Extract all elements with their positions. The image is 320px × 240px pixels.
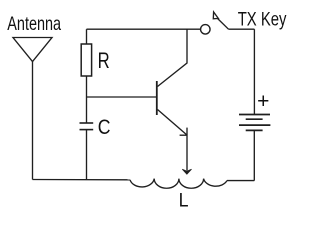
- svg-text:TX Key: TX Key: [238, 8, 287, 31]
- antenna symbol: [13, 38, 52, 62]
- wire bottom left: [33, 179, 131, 181]
- wire antenna lead down: [32, 62, 34, 180]
- wire base tap: [87, 96, 157, 98]
- switch lever tip triangle: [213, 12, 218, 19]
- capacitor C1: [80, 123, 94, 130]
- svg-text:L: L: [179, 189, 189, 211]
- wire top rail: [87, 28, 201, 30]
- svg-text:+: +: [257, 90, 269, 113]
- wire right rail down: [253, 29, 255, 114]
- wire battery to bottom: [253, 130, 255, 180]
- svg-text:C: C: [98, 115, 111, 139]
- inductor L1: [130, 179, 227, 189]
- switch lever: [218, 19, 229, 30]
- wire resistor to cap: [86, 76, 88, 123]
- resistor R1: [81, 44, 91, 76]
- battery B1: [239, 115, 270, 131]
- svg-text:R: R: [98, 49, 110, 74]
- wire switch to right rail: [229, 28, 255, 30]
- wire bottom right: [227, 180, 254, 182]
- svg-text:Antenna: Antenna: [7, 13, 61, 34]
- transistor Q1: [157, 29, 187, 135]
- wire left branch upper: [86, 29, 88, 44]
- wire cap to bottom: [86, 130, 88, 180]
- switch TX key terminal circle: [201, 25, 211, 35]
- wire emitter down with arrow: [182, 128, 191, 175]
